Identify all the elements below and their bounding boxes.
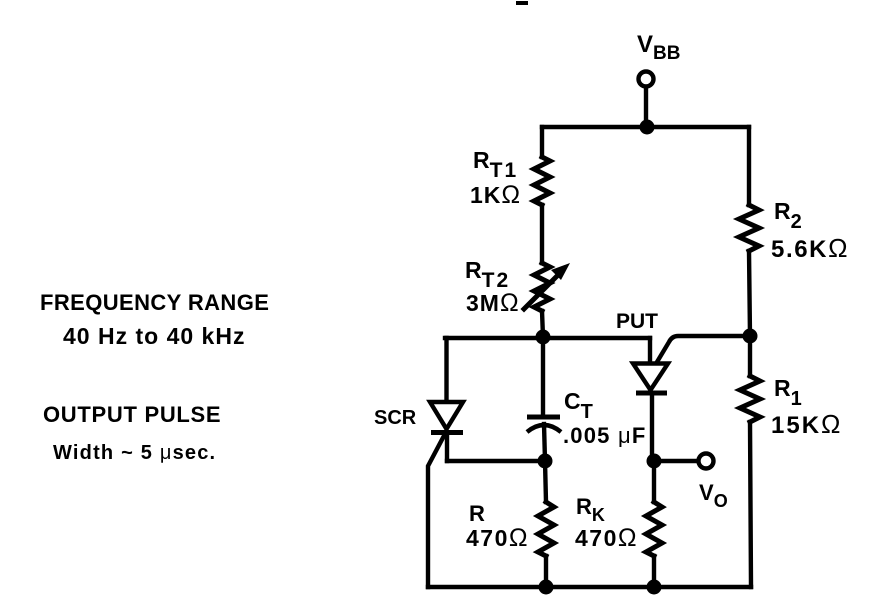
svg-text:.005 μF: .005 μF <box>563 423 646 448</box>
svg-text:15KΩ: 15KΩ <box>771 409 842 439</box>
svg-text:RK: RK <box>576 494 605 525</box>
svg-text:VBB: VBB <box>637 31 680 64</box>
svg-text:470Ω: 470Ω <box>575 524 638 552</box>
svg-text:CT: CT <box>564 388 593 423</box>
svg-text:RT1: RT1 <box>473 147 518 182</box>
svg-text:470Ω: 470Ω <box>466 524 529 552</box>
svg-text:RT2: RT2 <box>465 257 510 292</box>
svg-text:FREQUENCY RANGE: FREQUENCY RANGE <box>40 290 269 315</box>
svg-text:PUT: PUT <box>616 310 658 333</box>
svg-text:SCR: SCR <box>374 407 417 429</box>
svg-text:3MΩ: 3MΩ <box>466 289 520 317</box>
svg-text:R: R <box>469 501 485 526</box>
svg-text:Width ~ 5 μsec.: Width ~ 5 μsec. <box>53 442 216 464</box>
svg-text:R2: R2 <box>774 198 802 233</box>
svg-text:5.6KΩ: 5.6KΩ <box>771 233 849 263</box>
svg-text:R1: R1 <box>774 375 802 410</box>
svg-text:1KΩ: 1KΩ <box>470 181 521 209</box>
svg-text:VO: VO <box>699 480 728 511</box>
svg-text:OUTPUT PULSE: OUTPUT PULSE <box>43 402 221 427</box>
svg-text:40 Hz to 40 kHz: 40 Hz to 40 kHz <box>63 323 245 349</box>
